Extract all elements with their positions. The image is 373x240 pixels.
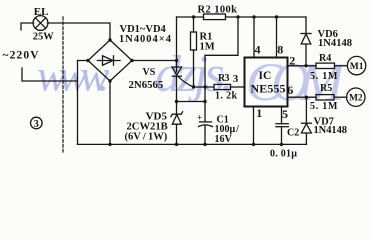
- svg-text:5. 1M: 5. 1M: [310, 101, 338, 112]
- svg-text:1N4148: 1N4148: [314, 125, 348, 136]
- dashed separator line: [62, 17, 64, 152]
- lamp EL: [33, 16, 48, 31]
- thyristor VS: [172, 67, 194, 102]
- wire AC top stub: [21, 23, 34, 30]
- svg-text:R4: R4: [319, 53, 331, 64]
- wire bridge left leg down to bottom rail: [78, 61, 89, 145]
- wire R2 output down-left to C1 branch: [205, 17, 238, 87]
- wire R5 to M2: [334, 96, 347, 98]
- wire pin1 to bottom rail: [253, 107, 255, 145]
- svg-text:(6V / 1W): (6V / 1W): [125, 132, 168, 143]
- svg-text:R2 100k: R2 100k: [198, 4, 238, 15]
- svg-text:8: 8: [277, 43, 283, 57]
- svg-text:1: 1: [256, 106, 262, 120]
- svg-text:~220V: ~220V: [3, 50, 40, 62]
- wire pin6 to R5: [288, 96, 317, 98]
- wire bridge bottom vertex to bottom rail: [109, 81, 111, 144]
- resistor R4: [316, 63, 335, 68]
- resistor R3: [214, 84, 231, 89]
- svg-text:R5: R5: [320, 83, 332, 94]
- wire AC bottom stub: [22, 68, 78, 81]
- svg-text:EL: EL: [34, 6, 49, 18]
- wire pin8: [276, 17, 278, 57]
- wire R3 to pin3: [231, 86, 245, 88]
- wire pin2 to R4: [288, 65, 317, 67]
- svg-text:1. 2k: 1. 2k: [215, 90, 237, 101]
- resistor R5: [316, 95, 334, 100]
- svg-text:1N4148: 1N4148: [318, 38, 352, 49]
- node M2: [347, 88, 365, 106]
- svg-text:+: +: [197, 113, 202, 123]
- svg-text:16V: 16V: [215, 134, 233, 145]
- svg-text:6: 6: [287, 83, 293, 97]
- wire top rail right segment: [226, 16, 307, 18]
- diode VD6: [301, 17, 311, 66]
- svg-text:NE555: NE555: [251, 81, 286, 95]
- wire R4 to M1: [335, 65, 348, 67]
- wire pin4: [253, 17, 255, 57]
- bridge rectifier VD1~VD4: [88, 40, 132, 81]
- wire gate to R3: [194, 86, 215, 88]
- wire top rail from lamp to bridge: [48, 23, 111, 40]
- svg-text:1M: 1M: [200, 41, 215, 52]
- svg-text:3: 3: [233, 73, 239, 85]
- svg-text:4: 4: [255, 43, 261, 57]
- svg-text:25W: 25W: [33, 31, 54, 42]
- wire bridge right vertex to thyristor anode node: [132, 60, 177, 62]
- wire top rail left segment: [177, 16, 204, 18]
- capacitor C1 electrolytic: [197, 87, 213, 144]
- svg-text:VD1~VD4: VD1~VD4: [120, 24, 167, 35]
- svg-text:5: 5: [282, 107, 288, 121]
- watermark www.dzjs.com: [37, 46, 347, 112]
- svg-text:1N4004×4: 1N4004×4: [119, 34, 172, 45]
- IC U1 NE555 timer box: [245, 58, 288, 107]
- node M1: [347, 56, 365, 74]
- svg-text:www.: www.: [37, 52, 110, 101]
- svg-text:2N6565: 2N6565: [129, 79, 164, 91]
- resistor R1: [191, 17, 197, 87]
- resistor R2: [204, 14, 226, 20]
- svg-text:R3: R3: [218, 73, 230, 84]
- wire cathode node to C1 top: [177, 101, 206, 103]
- svg-text:0. 01µ: 0. 01µ: [270, 149, 297, 160]
- diode VD7: [301, 97, 311, 144]
- svg-text:5. 1M: 5. 1M: [310, 71, 338, 82]
- svg-text:M2: M2: [349, 94, 363, 104]
- svg-text:C2: C2: [287, 128, 299, 139]
- bottom rail: [78, 143, 307, 145]
- svg-text:3: 3: [34, 119, 39, 130]
- capacitor C2: [276, 107, 288, 145]
- zener diode VD5: [171, 102, 183, 145]
- svg-text:M1: M1: [350, 62, 364, 72]
- label circled 3: [31, 117, 43, 130]
- wire thyristor anode vertical: [176, 17, 178, 72]
- svg-text:VS: VS: [143, 67, 156, 78]
